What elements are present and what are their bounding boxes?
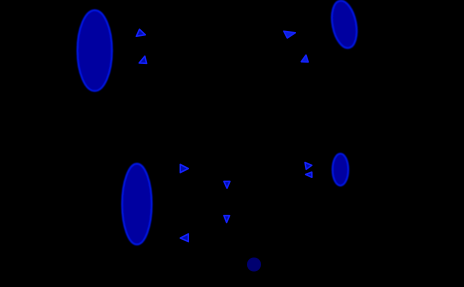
diode arrow down upper (node between Q3 and Q4)	[224, 181, 230, 188]
transistor Q4 body (right small ellipse)	[333, 154, 349, 186]
transistor Q1 emitter arrow lower	[139, 56, 146, 63]
transistor Q2 arrow upper	[284, 31, 296, 38]
transistor Q1 body (top-left ellipse)	[77, 10, 112, 91]
transistor Q1 emitter arrow upper	[136, 29, 145, 36]
transistor Q2 arrow lower	[301, 55, 308, 62]
transistor Q3 body (bottom-left ellipse)	[122, 164, 152, 245]
transistor Q3 arrow left-pointing	[180, 234, 188, 242]
transistor Q4 arrow lower	[306, 172, 312, 177]
node A marker (faint blob bottom middle)	[247, 258, 261, 272]
transistor Q3 arrow right-pointing	[180, 164, 188, 172]
transistor Q4 arrow upper	[305, 163, 312, 170]
diode arrow down lower	[224, 216, 230, 223]
transistor Q2 body (top-right tilted ellipse)	[328, 0, 360, 50]
